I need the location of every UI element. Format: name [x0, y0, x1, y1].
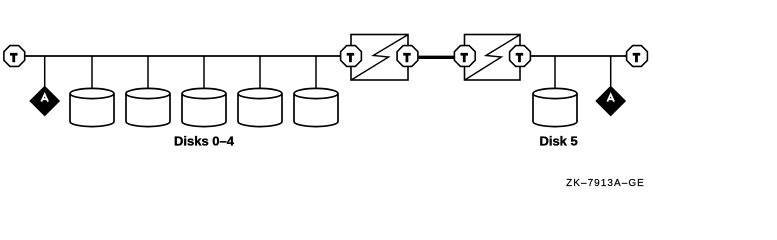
- wire: drop to disk 0: [91, 56, 93, 90]
- bus adapter box U2: [465, 35, 521, 81]
- bus adapter box U1: [351, 35, 408, 81]
- wire: drop to disk 2: [203, 56, 205, 90]
- terminator T6 (far right): [627, 46, 648, 67]
- terminator T5 (U2 right port): [510, 46, 531, 67]
- wire: left bus segment: [24, 55, 342, 57]
- wire: drop to disk 1: [147, 56, 149, 90]
- wire: drop to adapter A1: [44, 56, 46, 87]
- wire: drop to disk 3: [259, 56, 261, 90]
- terminator T1 (far left): [4, 46, 25, 67]
- wire: drop to adapter A2: [610, 56, 612, 87]
- terminator T4 (U2 left port): [454, 46, 475, 67]
- terminator T2 (U1 left port): [341, 46, 362, 67]
- terminator T3 (U1 right port): [397, 46, 418, 67]
- disk 3: [238, 88, 282, 126]
- svg-text:Disks 0–4: Disks 0–4: [174, 133, 235, 148]
- disk 4: [294, 88, 338, 126]
- svg-text:Disk 5: Disk 5: [539, 133, 577, 148]
- disk 5: [533, 88, 577, 126]
- wire: right bus segment: [529, 55, 628, 57]
- svg-text:ZK–7913A–GE: ZK–7913A–GE: [566, 178, 645, 189]
- wire: drop to disk 5: [554, 56, 556, 90]
- wire: drop to disk 4: [315, 56, 317, 90]
- adapter A2 (right): [595, 86, 626, 117]
- disk 2: [182, 88, 226, 126]
- disk 0: [70, 88, 114, 126]
- disk 1: [126, 88, 170, 126]
- adapter A1 (left): [29, 86, 60, 117]
- wire: thick interconnect between bus adapters: [417, 56, 455, 59]
